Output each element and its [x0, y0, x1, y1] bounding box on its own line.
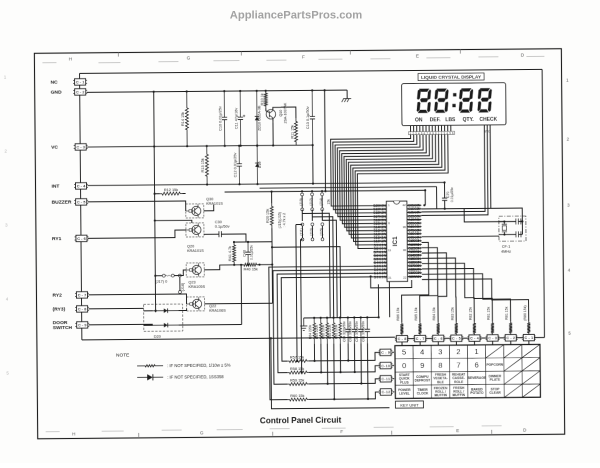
resistor R11: [294, 118, 297, 145]
wire vertical rail x155: [154, 92, 156, 312]
svg-text:C-1: C-1: [76, 79, 85, 84]
jumper network J11 J13 J15: [301, 223, 304, 226]
capacitor C10: [223, 91, 225, 117]
wire R11 top: [281, 107, 296, 118]
svg-text:CHECK: CHECK: [479, 117, 497, 123]
svg-text:C-6: C-6: [434, 337, 443, 341]
resistor R81: [491, 321, 494, 335]
svg-text:C-7: C-7: [78, 292, 87, 297]
connector C-11: [380, 376, 391, 382]
svg-text:R59 15k: R59 15k: [290, 378, 304, 382]
svg-text:C11 47µ/16v: C11 47µ/16v: [234, 108, 238, 129]
svg-text:PLATE: PLATE: [490, 378, 501, 382]
capacitor C12: [238, 146, 240, 164]
connector C-2: [75, 89, 86, 95]
wire INT rail into C70 area: [436, 187, 438, 209]
wire Q22/Q23 outputs: [204, 265, 272, 304]
wire BUZZER line to Q30: [88, 201, 186, 212]
wire RC filter bus: [304, 316, 379, 319]
diode ZD10: [256, 91, 258, 146]
svg-text:R64 220k: R64 220k: [308, 324, 312, 338]
svg-text:C-3: C-3: [76, 144, 85, 149]
svg-text:R62 220k: R62 220k: [321, 324, 325, 338]
svg-text:C-10: C-10: [381, 364, 390, 368]
wire sub-block: [234, 241, 272, 243]
wire GND rail drop to jumper bus: [324, 90, 327, 191]
transistor Q10: [266, 109, 276, 119]
svg-text:C-4: C-4: [77, 183, 86, 188]
svg-text:R83 15k: R83 15k: [450, 307, 454, 320]
svg-text:9: 9: [420, 361, 424, 370]
wire right-side drop to key connector row: [542, 69, 544, 337]
connector C-3: [487, 335, 498, 341]
resistor R61: [339, 318, 342, 344]
svg-text:C84 330p/50v: C84 330p/50v: [342, 321, 346, 342]
svg-text:QTY.: QTY.: [463, 117, 475, 123]
wire Q30 out: [204, 205, 214, 211]
svg-text:SWITCH: SWITCH: [53, 325, 73, 331]
svg-text:G20SG6N: G20SG6N: [408, 275, 421, 279]
capacitor C30: [204, 233, 219, 235]
svg-text:R65 220k: R65 220k: [328, 324, 332, 338]
svg-text:C-7: C-7: [416, 337, 425, 341]
svg-text:(J15)(J15): (J15)(J15): [278, 212, 282, 228]
svg-text:G: G: [200, 430, 204, 435]
svg-text:C-8: C-8: [398, 337, 407, 341]
jumper J17: [155, 275, 162, 277]
connector C-10: [380, 362, 391, 368]
svg-text:R40 15k: R40 15k: [244, 268, 258, 272]
svg-text:R60 15k: R60 15k: [290, 394, 304, 398]
svg-text:IC1: IC1: [392, 236, 399, 246]
svg-text:11: 11: [388, 248, 391, 252]
wire bundle IC1 to key rows: [269, 266, 375, 400]
resistor R12: [160, 192, 183, 195]
svg-text:R11 15k: R11 15k: [290, 125, 294, 139]
svg-text:LEVEL: LEVEL: [399, 392, 410, 396]
svg-text:R84 15k: R84 15k: [432, 307, 436, 320]
wire jumper bus: [272, 191, 330, 221]
border frame: [34, 49, 564, 439]
svg-text:0.1µ/50v: 0.1µ/50v: [215, 225, 230, 229]
wire top rail: [80, 69, 543, 73]
connector C-6: [76, 235, 87, 241]
svg-text:RY1: RY1: [52, 236, 62, 242]
connector C-1: [523, 334, 534, 340]
connector C-5: [76, 199, 87, 205]
svg-text:BUZZER: BUZZER: [52, 200, 72, 206]
transistor Q20: [186, 223, 204, 237]
resistor R65: [332, 318, 335, 344]
svg-text:5: 5: [402, 348, 406, 357]
key cell unused diagonal: [504, 358, 522, 371]
svg-text:(J13): (J13): [310, 228, 314, 236]
svg-text:4: 4: [420, 348, 424, 357]
wire VC rail: [87, 145, 312, 147]
wire DOOR SWITCH line: [89, 324, 153, 326]
connector C-9: [380, 349, 391, 355]
svg-text:DEF.: DEF.: [430, 117, 441, 123]
svg-text:H: H: [72, 431, 75, 436]
svg-text:KRA106S: KRA106S: [209, 309, 226, 313]
svg-text:R58 15k: R58 15k: [290, 367, 304, 371]
svg-text:VC: VC: [51, 145, 58, 151]
key cell unused diagonal: [522, 344, 540, 357]
transistor Q23: [186, 263, 204, 277]
wire J17 to Q23: [174, 270, 186, 276]
svg-text:R63 220k: R63 220k: [315, 324, 319, 338]
ruler dashes bottom edge: [46, 426, 502, 432]
resistor R14: [185, 91, 188, 146]
diode group D20 dashed box: [144, 304, 183, 331]
svg-text:C-3: C-3: [488, 336, 497, 340]
IC1 junction dots: [423, 204, 425, 206]
resistor R82: [473, 321, 476, 335]
svg-text:R85 15k: R85 15k: [414, 307, 418, 320]
svg-text:INT: INT: [51, 184, 59, 190]
svg-text:1: 1: [474, 347, 478, 356]
svg-text:3: 3: [438, 347, 442, 356]
svg-text:C-6: C-6: [77, 236, 86, 241]
svg-text:STC: STC: [484, 130, 491, 134]
transistor Q22: [186, 297, 204, 311]
svg-text:E: E: [456, 428, 459, 433]
svg-text:R82 15k: R82 15k: [468, 307, 472, 320]
svg-text:0.01µ/25v: 0.01µ/25v: [250, 245, 254, 260]
svg-text:C13 0.1µ/50v: C13 0.1µ/50v: [306, 106, 310, 129]
resistor R86: [400, 322, 403, 336]
svg-text:Q22: Q22: [209, 304, 216, 308]
resistor R13: [205, 146, 208, 185]
svg-text:F: F: [302, 54, 305, 59]
resistor R58: [287, 371, 309, 374]
svg-text:: 4.7k x 2: : 4.7k x 2: [282, 213, 286, 228]
connector C-9: [77, 322, 88, 328]
key cell unused diagonal: [504, 371, 522, 384]
diode D20a: [153, 310, 179, 312]
wire bundle IC1 to key columns: [401, 242, 429, 322]
connector C-3: [75, 144, 86, 150]
key cell unused diagonal: [522, 371, 540, 384]
wire bundle lines mid: [260, 187, 437, 189]
svg-text:(J17) 0: (J17) 0: [155, 280, 167, 284]
svg-text:C-11: C-11: [381, 377, 390, 381]
svg-text:42: 42: [402, 203, 406, 207]
svg-text:NC: NC: [51, 80, 59, 86]
resistor R60: [287, 398, 309, 401]
svg-text:CF-1: CF-1: [502, 245, 510, 249]
resistor R40: [242, 263, 258, 266]
svg-text:C-9: C-9: [78, 322, 87, 327]
svg-text:0: 0: [402, 361, 406, 370]
capacitor C70: [444, 182, 446, 198]
svg-text:ZD10 UDZA-3B: ZD10 UDZA-3B: [257, 105, 261, 131]
svg-text:KRA101S: KRA101S: [206, 202, 223, 206]
svg-text:MUFFIN: MUFFIN: [453, 393, 466, 397]
svg-text:H: H: [69, 56, 72, 61]
svg-text:Q30: Q30: [206, 197, 213, 201]
op-amp U1 IC1 body: [386, 201, 407, 281]
svg-text:C-2: C-2: [506, 336, 515, 340]
transistor Q30: [186, 204, 204, 218]
connector C-1: [75, 79, 86, 85]
wire left connector bus: [80, 73, 82, 339]
svg-text:(J11): (J11): [300, 228, 304, 235]
svg-text:21: 21: [388, 276, 392, 280]
chassis ground on GND rail end: [346, 90, 348, 98]
resistor R84: [437, 322, 440, 336]
connector C-6: [433, 335, 444, 341]
resistor R64: [313, 318, 316, 344]
svg-text:C12 0.01µ/25v: C12 0.01µ/25v: [233, 153, 237, 178]
key matrix grid: [395, 344, 540, 398]
LCD STC pins: [421, 125, 485, 212]
LCD colon: [453, 93, 456, 96]
svg-text:R10 1k: R10 1k: [260, 93, 264, 105]
resistor (R80: [527, 321, 530, 335]
capacitor C83: [353, 318, 355, 330]
ground symbol: [300, 318, 307, 330]
svg-text:8: 8: [438, 361, 442, 370]
wire Q10 collector down: [272, 122, 274, 145]
wire GND rail: [87, 90, 347, 92]
svg-text:C-8: C-8: [78, 306, 87, 311]
svg-text:KEY UNIT: KEY UNIT: [400, 402, 419, 407]
connector C-4: [75, 183, 86, 189]
svg-text:2SA-1037AK: 2SA-1037AK: [283, 102, 287, 123]
resistor R85: [418, 322, 421, 336]
ruler dashes top edge: [42, 56, 544, 63]
svg-text:C30: C30: [215, 220, 222, 224]
svg-text:NOTE: NOTE: [116, 352, 129, 358]
svg-text:BEVERAGE: BEVERAGE: [468, 376, 487, 380]
svg-text:(J16): (J16): [181, 282, 185, 291]
diode D10: [256, 146, 258, 184]
key cell unused diagonal: [504, 384, 522, 397]
capacitor C82: [360, 317, 362, 329]
svg-text:LIQUID CRYSTAL DISPLAY: LIQUID CRYSTAL DISPLAY: [421, 75, 482, 81]
wire RY1 line: [88, 230, 186, 238]
svg-text:Control Panel Circuit: Control Panel Circuit: [260, 416, 342, 426]
connector C-7: [76, 292, 87, 298]
svg-text:CLEAR: CLEAR: [489, 391, 501, 395]
svg-text:C-5: C-5: [452, 337, 461, 341]
wire D20 output up to R40 node: [240, 265, 243, 325]
wire R40 line: [241, 264, 272, 266]
svg-text:D20: D20: [154, 335, 161, 339]
svg-text:R57 15k: R57 15k: [290, 355, 304, 359]
svg-text:: IF NOT SPECIFIED, 1/10w ± 5: : IF NOT SPECIFIED, 1/10w ± 5%: [167, 363, 231, 369]
svg-text:LBS: LBS: [445, 117, 456, 123]
svg-text:MUFFIN: MUFFIN: [434, 393, 447, 397]
svg-text:C-5: C-5: [77, 199, 86, 204]
svg-text:C-2: C-2: [76, 89, 85, 94]
svg-text:C83 330p/50v: C83 330p/50v: [348, 321, 352, 342]
capacitor C40: [247, 242, 249, 252]
svg-text:Q10: Q10: [279, 110, 283, 117]
svg-text:R61 220k: R61 220k: [334, 324, 338, 338]
svg-text:RY2: RY2: [52, 293, 62, 299]
wire INT rail: [88, 182, 445, 185]
wire bus risers: [378, 282, 389, 318]
crystal CF-1: [499, 216, 526, 241]
svg-text:POPCORN: POPCORN: [486, 363, 503, 367]
svg-text:Q23: Q23: [188, 280, 195, 284]
svg-text:C81 330p/50v: C81 330p/50v: [361, 321, 365, 342]
capacitor C81: [366, 317, 368, 329]
wire pin1 right drop: [424, 190, 426, 205]
svg-text:(RY3): (RY3): [53, 307, 66, 313]
svg-text:POTATO: POTATO: [470, 391, 484, 395]
svg-text:Q20: Q20: [187, 244, 194, 248]
svg-text:2: 2: [456, 347, 460, 356]
svg-text:D10: D10: [258, 161, 262, 168]
svg-text:(R80 15k): (R80 15k): [523, 305, 527, 320]
wire bottom loop from bus to key-unit area: [82, 337, 395, 340]
svg-text:(J14): (J14): [319, 198, 323, 206]
key cell unused diagonal: [522, 358, 540, 371]
svg-text:ROLE: ROLE: [454, 380, 464, 384]
resistor R20: [270, 203, 273, 228]
svg-text:15k: 15k: [327, 199, 331, 205]
svg-text:E: E: [416, 53, 419, 58]
svg-text:CLOCK: CLOCK: [417, 392, 429, 396]
svg-text:: IF NOT SPECIFIED, 1SS358: : IF NOT SPECIFIED, 1SS358: [167, 374, 224, 379]
wire R12 line: [155, 192, 186, 194]
key cell unused diagonal: [504, 345, 522, 358]
wire vertical x313.5 down from VC: [312, 145, 314, 183]
IC1 right pin stubs and labels: [407, 204, 421, 206]
svg-text:C-9: C-9: [381, 351, 390, 355]
wire RY2 line: [88, 294, 186, 305]
svg-text:C-12: C-12: [382, 390, 391, 394]
wire bundle LCD to IC1: [331, 135, 412, 206]
resistor R83: [455, 322, 458, 336]
svg-text:C82 330p/50v: C82 330p/50v: [355, 321, 359, 342]
connector C-7: [415, 335, 426, 341]
LCD pins: [410, 126, 412, 132]
wire CF-1 connections: [421, 207, 490, 210]
svg-text:R12 15k: R12 15k: [164, 188, 178, 192]
svg-text:C-4: C-4: [470, 337, 479, 341]
wire key connector row line: [395, 337, 545, 338]
svg-text:G: G: [187, 55, 191, 60]
wire R20 column down: [271, 242, 274, 303]
svg-text:KRA105S: KRA105S: [188, 285, 205, 289]
wire diode outputs: [179, 308, 242, 325]
jumper network J10 J12 J14: [301, 193, 304, 196]
svg-text:BLE: BLE: [437, 380, 444, 384]
svg-text:C10 0.01µ/25v: C10 0.01µ/25v: [218, 106, 222, 131]
capacitor C11: [239, 91, 241, 117]
svg-text:AppliancePartsPros.com: AppliancePartsPros.com: [230, 9, 362, 21]
resistor R41: [233, 242, 236, 265]
svg-text:ON: ON: [415, 117, 423, 123]
wire corner bundle down to key rows: [302, 213, 330, 318]
svg-text:PLUS: PLUS: [400, 380, 410, 384]
wire RY3 line: [89, 308, 153, 311]
wire vertical feeds: [296, 224, 304, 361]
connector C-8: [396, 335, 407, 341]
connector C-2: [505, 335, 516, 341]
jumper J16: [178, 274, 181, 277]
resistor R62: [326, 318, 329, 344]
svg-text:S0K0N: S0K0N: [374, 275, 387, 279]
svg-text:R41 4.7k: R41 4.7k: [228, 246, 232, 261]
svg-text:R86 15k: R86 15k: [396, 307, 400, 320]
connector C-5: [451, 335, 462, 341]
svg-text:36: 36: [403, 225, 407, 229]
svg-text:0.01µ/25v: 0.01µ/25v: [450, 187, 454, 202]
svg-text:GND: GND: [51, 90, 62, 96]
wire VSS loop under IC1: [371, 276, 412, 288]
KEY UNIT label: [395, 401, 423, 408]
LCD title box LIQUID CRYSTAL DISPLAY: [418, 73, 484, 81]
wire Q30 emitter to rail: [155, 220, 192, 223]
svg-text:7: 7: [456, 361, 460, 370]
svg-text:4MHz: 4MHz: [501, 250, 511, 254]
IC1 left pin stubs and labels: [373, 205, 386, 207]
svg-text:R81 15k: R81 15k: [505, 306, 509, 319]
connector C-4: [469, 335, 480, 341]
capacitor C84: [347, 318, 349, 330]
key cell unused diagonal: [486, 345, 504, 358]
svg-text:R14 15k: R14 15k: [181, 112, 185, 126]
connector C-8: [77, 306, 88, 312]
svg-text:KRA101S: KRA101S: [187, 249, 204, 253]
svg-text:DEFROST: DEFROST: [415, 378, 431, 382]
svg-text:6: 6: [475, 360, 479, 369]
svg-text:F: F: [340, 429, 343, 434]
svg-text:R13 15k: R13 15k: [201, 158, 205, 172]
svg-text:(J12): (J12): [309, 198, 313, 206]
resistor R81: [509, 321, 512, 335]
svg-text:22: 22: [403, 276, 407, 280]
connector C-12: [380, 389, 391, 395]
resistor R59: [287, 382, 309, 385]
svg-text:C-1: C-1: [525, 336, 534, 340]
diode D20b: [153, 324, 179, 326]
svg-text:C40: C40: [243, 250, 247, 257]
resistor R57: [287, 359, 309, 362]
svg-text:(J15): (J15): [320, 228, 324, 236]
resistor R10: [264, 91, 267, 109]
svg-text:R81 15k: R81 15k: [487, 307, 491, 320]
resistor R63: [319, 318, 322, 344]
capacitor C13: [311, 90, 313, 116]
LCD body: [402, 83, 506, 126]
svg-text:(J10): (J10): [299, 198, 303, 206]
key cell unused diagonal: [522, 384, 540, 397]
svg-text:30: 30: [403, 248, 407, 252]
svg-text:R20 15k: R20 15k: [266, 209, 270, 223]
